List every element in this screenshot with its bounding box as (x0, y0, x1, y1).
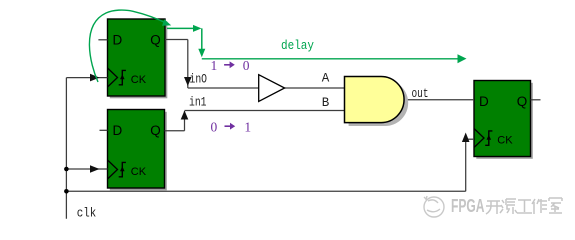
svg-text:Q: Q (150, 33, 161, 48)
svg-text:0: 0 (211, 119, 218, 134)
svg-text:clk: clk (77, 207, 97, 221)
svg-text:out: out (412, 87, 429, 101)
svg-text:CK: CK (131, 166, 147, 178)
svg-text:B: B (322, 96, 330, 110)
svg-text:CK: CK (131, 74, 147, 86)
svg-text:in1: in1 (189, 96, 207, 110)
svg-text:D: D (113, 33, 123, 48)
svg-text:Q: Q (150, 123, 161, 138)
svg-text:delay: delay (281, 39, 314, 53)
svg-text:1: 1 (211, 58, 218, 73)
svg-text:0: 0 (243, 58, 250, 73)
svg-text:Q: Q (517, 94, 528, 109)
svg-text:D: D (113, 123, 123, 138)
svg-text:inO: inO (190, 73, 208, 87)
svg-text:FPGA: FPGA (451, 196, 485, 216)
svg-text:D: D (479, 94, 489, 109)
svg-text:1: 1 (244, 119, 251, 134)
svg-text:CK: CK (497, 135, 513, 147)
svg-text:A: A (322, 71, 330, 85)
